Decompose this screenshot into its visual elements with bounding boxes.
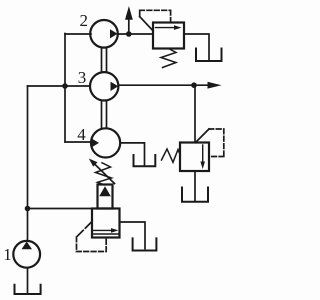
pump 2 xyxy=(90,20,118,48)
wire: pump 3 outlet with port arrow right xyxy=(119,84,209,86)
reducing valve bottom: pilot loop xyxy=(77,223,92,238)
reducing valve bottom: pilot poppet triangle xyxy=(99,186,111,196)
wire: right valve outlet xyxy=(194,171,196,201)
wire: pump 2 inlet xyxy=(65,33,91,35)
reducing valve bottom: adjustable spring xyxy=(96,163,112,185)
wire: feed to reducing valve xyxy=(28,208,93,210)
wire: pump 4 outlet xyxy=(120,143,144,166)
reducing valve bottom: inner line xyxy=(92,233,120,235)
svg-text:3: 3 xyxy=(78,68,87,87)
reducing valve bottom: flow arrow xyxy=(94,229,113,231)
sequence valve right: pilot line xyxy=(196,129,210,143)
tank: below right valve xyxy=(182,188,208,202)
sequence valve right: spring xyxy=(162,149,181,162)
pump 4 xyxy=(91,128,120,157)
wire: pump1 suction xyxy=(27,268,29,293)
reducing valve bottom: adjustment arrow xyxy=(93,162,115,184)
reducing valve bottom: main body xyxy=(92,209,120,238)
svg-text:1: 1 xyxy=(3,245,12,264)
wire: left vertical from pump 1 xyxy=(27,86,29,241)
svg-text:4: 4 xyxy=(77,125,86,144)
relief valve top: body xyxy=(153,23,184,49)
sequence valve right: flow arrow down xyxy=(202,145,204,163)
wire: suction manifold vertical x65 xyxy=(64,34,66,143)
node: junction pump3 outlet xyxy=(191,82,197,88)
node: junction on manifold xyxy=(62,83,68,89)
wire: branch left at y86 xyxy=(28,85,66,87)
wire: reducing valve outlet xyxy=(120,222,146,249)
wire: relief valve top outlet xyxy=(184,34,209,60)
relief valve top: flow arrow xyxy=(156,27,176,29)
node: junction pump2 outlet xyxy=(126,31,132,37)
sequence valve right: body xyxy=(180,143,209,172)
reducing valve bottom: pilot head box xyxy=(98,185,113,209)
wire: port arrow up xyxy=(128,19,130,35)
pump 1 xyxy=(13,241,40,268)
shaft pump3-pump4 xyxy=(102,101,107,129)
tank: top right xyxy=(196,49,222,62)
node: junction pump1 line xyxy=(25,206,31,212)
wire: pump 3 inlet xyxy=(65,85,90,87)
wire: right valve inlet xyxy=(194,85,196,142)
tank: below reducing valve xyxy=(133,238,157,250)
tank: pump4 outlet xyxy=(134,155,156,166)
wire: pump 2 outlet xyxy=(118,33,153,35)
relief valve top: spring xyxy=(161,49,176,68)
tank: pump1 xyxy=(15,285,41,294)
shaft pump2-pump3 xyxy=(102,48,107,72)
wire: pump 4 inlet xyxy=(65,141,91,143)
svg-text:2: 2 xyxy=(80,11,89,30)
relief valve top: pilot line xyxy=(140,17,154,31)
pump 3 xyxy=(90,72,118,100)
